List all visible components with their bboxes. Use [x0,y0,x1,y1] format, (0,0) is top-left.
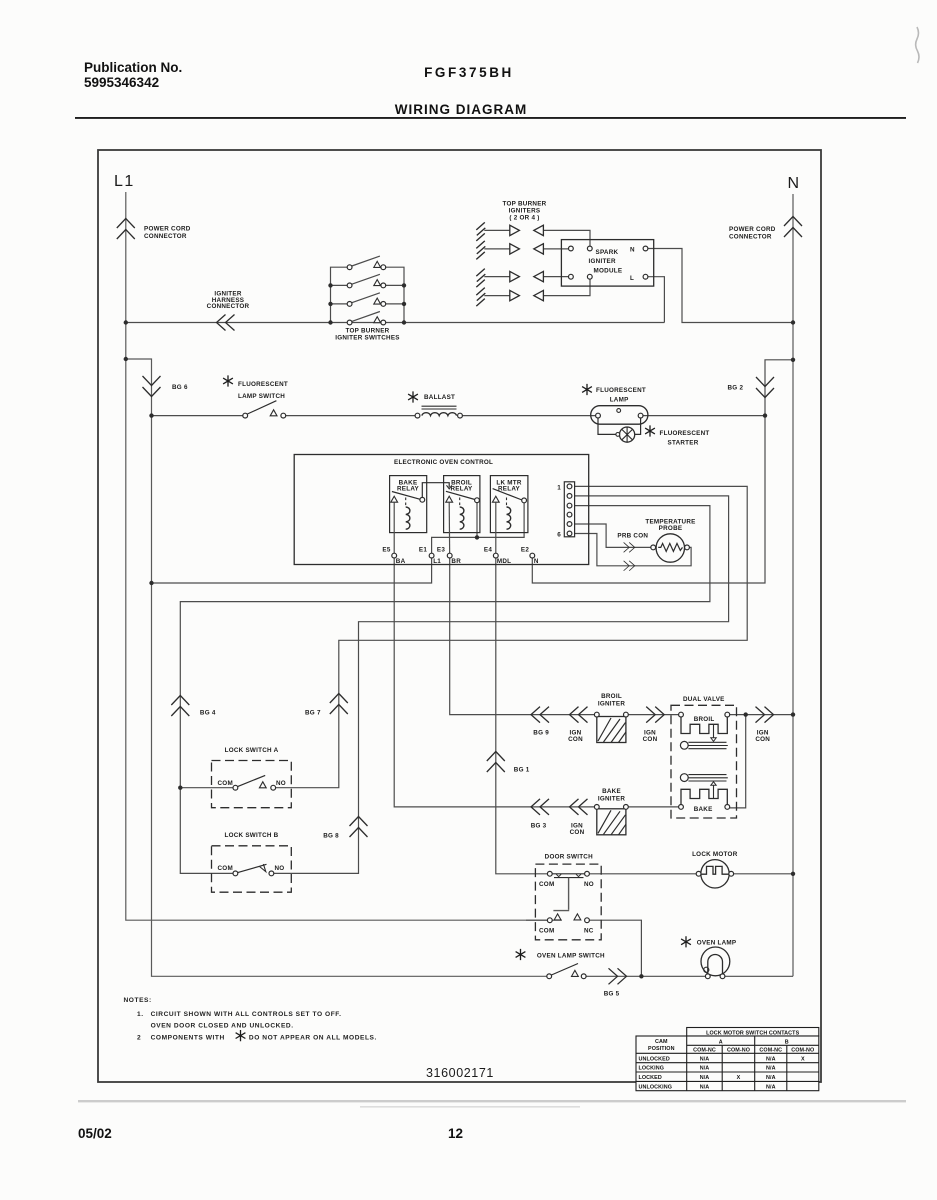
probe connector PRB CON chevrons [617,533,648,571]
svg-text:N/A: N/A [766,1084,776,1090]
svg-text:CON: CON [568,736,583,743]
wire door switch NC to oven lamp row [589,920,641,976]
wire E3 BR to broil igniter row [450,558,679,715]
svg-text:BA: BA [396,558,406,565]
top burner igniter 2 [476,241,568,260]
power cord connector right [729,217,802,241]
svg-text:BALLAST: BALLAST [424,394,455,401]
wire pin3 to lock switch commons [180,506,710,874]
svg-text:COM: COM [218,865,233,872]
broil relay K2 [444,476,480,558]
wire pin1 to lock switch A NO [276,486,748,787]
svg-text:LAMP: LAMP [610,396,629,403]
svg-text:IGNITER: IGNITER [598,700,625,707]
N rail junction at lock motor row [791,872,795,876]
svg-text:MODULE: MODULE [594,268,623,275]
svg-text:FGF375BH: FGF375BH [424,65,514,80]
top burner igniter 3 [476,269,568,288]
svg-text:12: 12 [448,1126,463,1141]
junction dots left rail [124,320,128,324]
svg-text:E4: E4 [484,547,492,554]
svg-text:E2: E2 [521,547,529,554]
svg-text:N: N [630,247,635,254]
svg-text:BG 6: BG 6 [172,384,188,391]
svg-text:SPARK: SPARK [596,249,619,256]
svg-text:COM-NO: COM-NO [727,1048,750,1054]
svg-text:6: 6 [557,531,561,538]
wire lock switch A COM feed [180,787,233,789]
svg-text:PRB CON: PRB CON [617,533,648,540]
bake igniter [594,788,628,835]
valve junction dot [744,712,748,716]
wire fluorescent lamp row [152,415,766,417]
svg-text:OVEN LAMP SWITCH: OVEN LAMP SWITCH [537,952,605,959]
wire pin6 probe return [575,534,692,566]
svg-text:NO: NO [584,881,594,888]
svg-text:POWER CORD: POWER CORD [729,226,776,233]
svg-text:BROIL: BROIL [601,693,622,700]
EOC 6-pin connector J1 [557,482,574,539]
valve right IGN CON connector [755,707,773,744]
top burner igniter switches bank [328,256,406,341]
svg-text:POWER CORD: POWER CORD [144,226,191,233]
dual valve [671,696,737,818]
svg-text:BG 7: BG 7 [305,709,321,716]
svg-text:STARTER: STARTER [668,439,699,446]
relay bus junction [475,535,479,539]
spark igniter module U1 [561,240,653,287]
svg-text:BG 9: BG 9 [533,730,549,737]
svg-text:COM: COM [539,928,554,935]
lock motor relay K3 [490,476,528,558]
connector BG 4 [171,696,216,717]
svg-text:COM: COM [539,881,554,888]
broil igniter IGN CON connector [568,707,587,744]
svg-text:CIRCUIT SHOWN WITH ALL CONTROL: CIRCUIT SHOWN WITH ALL CONTROLS SET TO O… [151,1011,342,1018]
svg-text:ELECTRONIC OVEN CONTROL: ELECTRONIC OVEN CONTROL [394,459,493,466]
svg-text:B: B [785,1040,789,1046]
svg-text:BG 2: BG 2 [728,385,744,392]
connector BG 6 [143,376,188,397]
power cord connector left [117,219,191,241]
wire EOC relay bus [432,503,524,553]
svg-text:LOCKING: LOCKING [639,1066,665,1072]
svg-text:N/A: N/A [700,1075,710,1081]
svg-text:E5: E5 [382,547,390,554]
svg-text:LOCK MOTOR: LOCK MOTOR [692,851,738,858]
wire BG2 branch [532,360,793,583]
wire pin5 to probe [575,524,651,547]
svg-text:COM-NC: COM-NC [693,1048,716,1054]
lock switch A COM junction [178,786,182,790]
terminal E3 BR [437,547,461,565]
junction dots right rail [791,320,795,324]
svg-text:OVEN LAMP: OVEN LAMP [697,940,737,947]
svg-text:316002171: 316002171 [426,1066,494,1080]
svg-text:CONNECTOR: CONNECTOR [144,233,187,240]
N rail junction at valve row [791,712,795,716]
svg-text:2: 2 [137,1034,141,1041]
svg-text:BAKE: BAKE [602,788,621,795]
terminal E5 BA [382,547,405,565]
svg-text:Publication No.: Publication No. [84,60,182,75]
svg-text:DUAL VALVE: DUAL VALVE [683,696,725,703]
svg-text:X: X [801,1056,805,1062]
broil igniter right IGN CON connector [643,707,665,744]
svg-text:NO: NO [276,780,286,787]
svg-text:L1: L1 [114,173,135,190]
svg-text:COM-NC: COM-NC [759,1048,782,1054]
svg-text:BAKE: BAKE [694,806,713,813]
svg-text:BROIL: BROIL [694,716,715,723]
wire spark module L down [646,277,665,323]
svg-text:DO NOT APPEAR ON ALL MODELS.: DO NOT APPEAR ON ALL MODELS. [249,1034,377,1041]
oven lamp switch [516,949,605,979]
scan smudge bottom [78,1100,906,1102]
svg-text:CAM: CAM [655,1039,668,1045]
svg-text:UNLOCKED: UNLOCKED [639,1056,670,1062]
wire N rail [792,194,794,976]
svg-text:E1: E1 [419,547,427,554]
bake valve plunger [680,774,688,782]
svg-text:5995346342: 5995346342 [84,75,159,90]
top burner igniters label [503,201,547,222]
svg-text:NO: NO [275,865,285,872]
connector BG 7 [305,694,348,717]
svg-text:1: 1 [557,484,561,491]
svg-text:A: A [719,1040,723,1046]
wire oven lamp row [586,975,793,977]
svg-text:LOCK SWITCH A: LOCK SWITCH A [225,747,279,754]
wire L1 rail [126,192,550,920]
svg-text:FLUORESCENT: FLUORESCENT [596,387,646,394]
wire lock motor to N rail [733,873,793,875]
fluorescent starter [598,418,709,446]
lock switch A [212,747,292,808]
ballast [408,391,462,418]
svg-text:COM-NO: COM-NO [791,1048,814,1054]
wire bake valve right riser [730,715,746,808]
wire E4 MDL to door switch [496,558,548,874]
oven lamp [681,936,736,978]
svg-text:CON: CON [755,736,770,743]
svg-text:BR: BR [451,558,461,565]
oven lamp row junction [639,974,643,978]
svg-text:N/A: N/A [766,1066,776,1072]
lock switch B [212,832,292,892]
svg-text:IGNITER SWITCHES: IGNITER SWITCHES [335,334,400,341]
wire BG6 branch [126,359,549,976]
connector BG 5 [604,968,627,997]
wire main L1 horizontal bus [126,322,665,324]
fluorescent lamp switch [223,375,288,418]
svg-text:UNLOCKING: UNLOCKING [639,1084,673,1090]
svg-text:LOCK MOTOR SWITCH CONTACTS: LOCK MOTOR SWITCH CONTACTS [706,1030,799,1036]
svg-text:N: N [534,558,539,565]
wire E5 BA to bake igniter row [394,558,681,807]
svg-text:( 2 OR 4 ): ( 2 OR 4 ) [509,215,539,222]
svg-text:OVEN DOOR CLOSED AND UNLOCKED.: OVEN DOOR CLOSED AND UNLOCKED. [151,1022,294,1029]
wire pin2 to lock switch B NO [274,496,729,874]
svg-text:BG 5: BG 5 [604,991,620,998]
bake relay K1 [390,476,450,558]
svg-text:E3: E3 [437,547,445,554]
svg-text:DOOR SWITCH: DOOR SWITCH [545,853,593,860]
svg-text:RELAY: RELAY [397,486,420,493]
svg-text:NC: NC [584,928,594,935]
svg-text:N/A: N/A [700,1056,710,1062]
wire probe left stub [655,546,658,548]
scan artifact squiggle top right [916,27,919,63]
svg-text:LAMP SWITCH: LAMP SWITCH [238,393,285,400]
header publication number [84,60,182,90]
wire broil valve to N rail [730,714,793,716]
svg-text:POSITION: POSITION [648,1046,675,1052]
svg-text:IGNITER: IGNITER [589,258,616,265]
svg-text:WIRING DIAGRAM: WIRING DIAGRAM [395,102,528,117]
header underline [75,117,906,119]
broil valve plunger [680,741,688,749]
svg-text:CONNECTOR: CONNECTOR [207,303,250,310]
terminal E4 MDL [484,547,511,565]
top burner igniter 4 [476,279,590,306]
broil igniter [594,693,628,743]
wire door switch NO to lock motor [589,873,696,875]
door switch [526,853,601,940]
svg-text:BG 4: BG 4 [200,709,216,716]
electronic oven control box [294,455,589,565]
igniter harness connector [207,291,250,331]
svg-text:X: X [737,1075,741,1081]
bake igniter IGN CON connector [570,799,588,836]
svg-text:IGNITER: IGNITER [598,796,625,803]
svg-text:MDL: MDL [497,558,511,565]
svg-text:FLUORESCENT: FLUORESCENT [238,381,288,388]
svg-text:NOTES:: NOTES: [124,997,152,1004]
svg-text:N: N [788,175,800,192]
notes [124,997,377,1041]
broil igniter row BG 9 connector [531,707,549,737]
connector BG 1 [487,752,530,774]
svg-text:BG 3: BG 3 [531,822,547,829]
terminal E2 N [521,547,539,565]
top burner igniter 1 [476,222,590,246]
svg-text:FLUORESCENT: FLUORESCENT [660,430,710,437]
bake igniter row BG 3 connector [531,799,549,829]
svg-text:N/A: N/A [700,1084,710,1090]
fluorescent lamp [582,384,648,424]
svg-text:BG 8: BG 8 [323,832,339,839]
svg-text:N/A: N/A [766,1075,776,1081]
svg-text:CON: CON [643,736,658,743]
terminal E1 L1 [419,547,441,565]
svg-text:LOCK SWITCH B: LOCK SWITCH B [225,832,279,839]
connector BG 2 [728,377,775,398]
wire spark module N to N rail [646,249,794,323]
lock motor [692,851,738,888]
svg-text:N/A: N/A [700,1066,710,1072]
wire E1 L1 feed [152,558,432,583]
svg-text:1.: 1. [137,1011,144,1018]
svg-text:PROBE: PROBE [659,525,683,532]
svg-text:N/A: N/A [766,1056,776,1062]
svg-text:BG 1: BG 1 [514,766,530,773]
svg-text:COMPONENTS WITH: COMPONENTS WITH [151,1034,225,1041]
temperature probe RT1 [645,519,695,563]
svg-text:CONNECTOR: CONNECTOR [729,234,772,241]
svg-text:L: L [630,275,634,282]
svg-text:L1: L1 [433,558,441,565]
svg-text:CON: CON [570,829,585,836]
svg-text:COM: COM [218,780,233,787]
svg-text:LOCKED: LOCKED [639,1075,662,1081]
svg-text:RELAY: RELAY [450,486,473,493]
connector BG 8 [323,817,367,840]
svg-text:05/02: 05/02 [78,1126,112,1141]
svg-text:IGNITERS: IGNITERS [509,207,541,214]
lock motor switch contacts table [636,1028,819,1091]
